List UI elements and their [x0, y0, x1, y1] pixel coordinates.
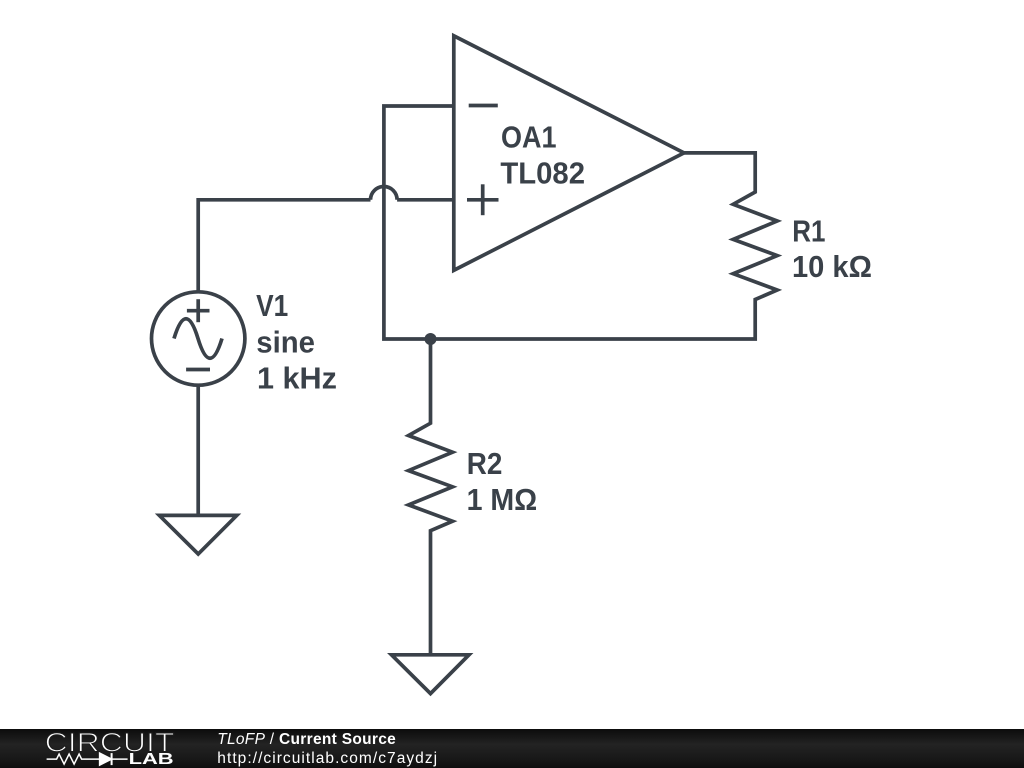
logo resistor-diode glyph [47, 753, 128, 765]
svg-text:10 kΩ: 10 kΩ [792, 249, 872, 284]
svg-text:LAB: LAB [129, 751, 174, 768]
wire V1 bottom [196, 385, 200, 515]
ground V1 [159, 515, 237, 554]
ground R2 [392, 655, 470, 694]
footer bar [0, 729, 1024, 768]
wire hop over feedback [371, 186, 398, 199]
wire R2 branch with resistor R2 [409, 339, 453, 655]
svg-text:1 kHz: 1 kHz [257, 360, 337, 395]
wire feedback loop with resistor R1 [384, 106, 777, 339]
wire noninverting input left [198, 200, 370, 292]
svg-text:R1: R1 [792, 213, 825, 248]
svg-text:TL082: TL082 [500, 156, 585, 191]
op-amp OA1 [454, 36, 684, 270]
svg-text:1 MΩ: 1 MΩ [467, 482, 537, 517]
svg-text:TLoFP / Current Source: TLoFP / Current Source [217, 731, 396, 748]
svg-text:http://circuitlab.com/c7aydzj: http://circuitlab.com/c7aydzj [217, 750, 438, 767]
svg-text:R2: R2 [467, 446, 503, 481]
svg-text:OA1: OA1 [501, 120, 557, 155]
voltage source V1 [152, 292, 245, 385]
svg-text:V1: V1 [256, 288, 288, 323]
wire noninverting input right [397, 198, 454, 202]
svg-text:sine: sine [256, 325, 315, 360]
node junction [425, 333, 437, 345]
footer background [0, 729, 1024, 768]
